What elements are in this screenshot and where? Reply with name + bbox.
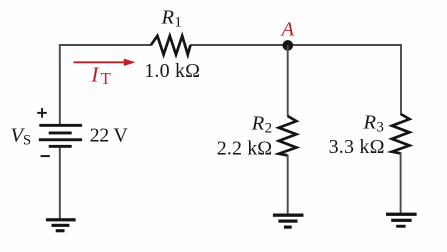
svg-text:IT: IT [90,63,110,89]
battery VS plate 1 long (+) [39,124,82,127]
svg-text:1.0 kΩ: 1.0 kΩ [144,60,200,82]
battery VS plate 3 long [39,138,82,141]
minus sign [41,155,50,157]
wire R2 to ground [287,155,289,215]
wire right vertical down to R3 [400,44,402,114]
svg-text:VS: VS [11,124,32,148]
wire left vertical from top corner down to battery + [59,44,61,125]
svg-text:22 V: 22 V [90,124,129,146]
ground under R3 [386,213,417,228]
node A [283,40,294,51]
svg-text:3.3 kΩ: 3.3 kΩ [329,136,385,158]
ground under battery [46,218,76,232]
svg-text:A: A [280,18,295,40]
battery VS plate 4 short (-) [49,145,72,148]
svg-text:R3: R3 [363,112,384,136]
wire top from node A to right branch [288,44,402,46]
svg-text:2.2 kΩ: 2.2 kΩ [217,138,272,160]
ground under R2 [273,214,304,229]
resistor R2 [279,116,297,155]
resistor R1 [151,36,190,55]
svg-text:R2: R2 [251,113,272,137]
wire node A down to R2 [287,45,289,117]
resistor R3 [392,114,410,153]
wire top from R1 to node A [190,44,288,46]
wire top from source to R1 [59,44,152,46]
battery VS plate 2 short [49,132,72,135]
svg-text:R1: R1 [161,6,182,30]
current arrow IT [74,59,136,66]
wire battery to ground [59,148,61,219]
wire R3 to ground [400,153,402,214]
plus sign [37,108,47,118]
